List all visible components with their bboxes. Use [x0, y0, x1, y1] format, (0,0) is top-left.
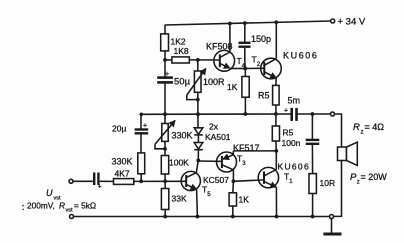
svg-text:KC507: KC507	[203, 175, 229, 185]
wire 4K7 to T5 base	[134, 180, 186, 182]
wire output terminal to speaker	[334, 114, 341, 147]
capacitor 100n	[306, 139, 320, 141]
svg-text:= 20W: = 20W	[361, 172, 388, 182]
wire node to 1K lower	[232, 181, 235, 193]
diode D2 KA501	[194, 143, 203, 150]
node T4 emitter / T2 base / 1K / 150p	[243, 67, 247, 71]
node bus 1K	[244, 112, 248, 116]
wire R5 bottom to bus	[275, 105, 277, 114]
node top rail T4 collector	[228, 22, 232, 26]
svg-text:+: +	[143, 122, 147, 129]
wire node down to 1K	[244, 69, 246, 77]
node input line 100K/33K	[163, 179, 167, 183]
transistor Q T3 KF517	[217, 152, 237, 172]
wire output bus right of 5m	[297, 113, 331, 115]
terminal input ground	[70, 215, 74, 219]
wire 1K8 to T4 base	[189, 59, 220, 61]
diode D1 KA501	[194, 128, 203, 135]
wire T4 emitter to T2 base node	[231, 68, 246, 70]
resistor R5 upper	[273, 85, 280, 105]
node ground 10R	[311, 215, 315, 219]
trimmer 100R	[194, 71, 201, 92]
svg-text:z: z	[357, 179, 360, 185]
node trimmer wiper tie	[163, 147, 167, 151]
wire T2 emitter to R5	[275, 78, 277, 85]
resistor R 330K fixed	[138, 153, 145, 174]
svg-text:1K2: 1K2	[171, 36, 186, 46]
svg-text:vst: vst	[66, 208, 74, 214]
wire 1K2 bottom to 50u top	[164, 51, 166, 77]
svg-text:R5: R5	[283, 127, 294, 137]
wire T5 collector up	[196, 160, 198, 172]
wire T2 base	[245, 67, 264, 69]
svg-text:+: +	[284, 108, 288, 115]
wire 33K top lead	[164, 181, 166, 188]
node bus R5	[274, 112, 278, 116]
wire 100n drop from bus	[311, 114, 313, 139]
resistor R 10R	[309, 174, 316, 194]
svg-text:200mV,: 200mV,	[27, 201, 55, 211]
trimmer 330K	[162, 124, 168, 142]
resistor R 4K7	[114, 179, 134, 185]
wire T1 collector up	[275, 151, 277, 170]
svg-text:R: R	[59, 201, 65, 211]
svg-text:z: z	[361, 129, 364, 135]
speaker LS	[338, 147, 347, 161]
node bus bias chain	[196, 112, 200, 116]
ground symbol	[331, 219, 333, 233]
svg-text:+ 34 V: + 34 V	[338, 17, 366, 28]
svg-text:4K7: 4K7	[115, 168, 130, 178]
svg-text:= 5kΩ: = 5kΩ	[74, 201, 96, 211]
wire T2 collector up	[275, 22, 277, 58]
wire 330K bottom to input line	[140, 174, 142, 182]
node ground 33K	[163, 215, 167, 219]
svg-text:KA501: KA501	[205, 132, 231, 142]
resistor R 1K lower	[229, 193, 236, 206]
node 100R wiper tie	[196, 98, 200, 102]
node top rail 150p	[243, 21, 247, 25]
svg-text:10R: 10R	[320, 178, 336, 188]
capacitor 150p	[239, 42, 251, 44]
wire 50u bottom to bus	[164, 84, 166, 115]
svg-text:1: 1	[289, 179, 293, 185]
wire diodes bottom to T5 collector node	[197, 150, 199, 161]
wire T5 emitter to ground	[196, 190, 199, 217]
wire R5 lower bottom to node	[275, 141, 277, 151]
svg-text:+: +	[165, 71, 169, 78]
resistor R 1K upper	[242, 77, 249, 98]
wire input to cap	[73, 180, 93, 182]
wire T4 collector up	[229, 24, 231, 53]
svg-text:2x: 2x	[209, 121, 219, 131]
resistor R 1K2	[161, 34, 169, 51]
node T4 base / 100R top	[196, 58, 200, 62]
wire 1K bottom to bus	[244, 97, 246, 114]
wire 1K lower to ground	[232, 206, 234, 217]
resistor R 1K8	[172, 57, 189, 63]
wire T3 emitter node to T1 collector	[233, 150, 276, 152]
svg-text:+: +	[98, 184, 102, 191]
wire between diodes	[197, 135, 199, 143]
svg-text:330K: 330K	[112, 156, 133, 166]
wire top supply rail	[165, 21, 331, 25]
terminal +34V	[331, 19, 335, 23]
transistor Q T2 KU606	[261, 58, 282, 79]
svg-text:1K: 1K	[227, 82, 238, 92]
transistor Q T5 KC507	[181, 171, 200, 190]
wire T1 emitter to ground	[275, 187, 277, 216]
wire 100R top lead	[197, 60, 199, 71]
wire R5 lower top lead	[275, 114, 277, 126]
node bus 100n	[311, 112, 315, 116]
wire output bus left of 5m	[141, 113, 292, 115]
wire 150p bottom to node	[244, 48, 246, 69]
svg-text:50µ: 50µ	[174, 76, 191, 87]
svg-text:= 4Ω: = 4Ω	[365, 122, 385, 132]
wire 20u drop from bus	[140, 114, 142, 129]
terminal ground right	[330, 215, 334, 219]
svg-text:100K: 100K	[169, 157, 189, 167]
wire T3 emitter up to node	[232, 151, 234, 155]
wire 1K8 left lead	[165, 59, 172, 61]
svg-text:KF517: KF517	[233, 143, 260, 153]
node 1K2/1K8/50u	[163, 58, 167, 62]
wire T1 base	[233, 180, 264, 181]
node T5 collector / T3 base	[196, 159, 200, 163]
svg-text:U: U	[46, 188, 53, 198]
wire T3 collector down	[232, 170, 234, 182]
terminal input top	[69, 179, 73, 183]
svg-text:33K: 33K	[172, 193, 187, 203]
node ground T1 emitter	[275, 215, 279, 219]
svg-text:1K8: 1K8	[174, 46, 189, 56]
node ground T5 emitter	[196, 215, 200, 219]
wire 20u bottom to 330K	[140, 135, 142, 153]
svg-text:100n: 100n	[282, 138, 301, 148]
wire trimmer bottom	[164, 141, 166, 155]
node bus 50u	[163, 112, 167, 116]
wire ground rail	[74, 216, 330, 218]
transistor Q T4 KF508	[214, 50, 235, 71]
svg-text:5m: 5m	[288, 96, 301, 106]
svg-text:5: 5	[207, 192, 211, 198]
wire 100R bottom to diodes through bus	[197, 92, 199, 127]
svg-text:KU606: KU606	[283, 51, 319, 61]
terminal output	[331, 112, 335, 116]
resistor R 100K	[161, 156, 168, 175]
wire speaker bottom to ground terminal	[333, 161, 341, 217]
capacitor 5m electrolytic	[290, 108, 293, 121]
wire 33K bottom to ground rail	[164, 210, 166, 217]
svg-text:R: R	[353, 122, 360, 133]
node R5 / T3 emitter / T1 collector	[274, 149, 278, 153]
capacitor input electrolytic	[93, 173, 95, 186]
node input line 330K	[139, 179, 143, 183]
svg-text:R5: R5	[258, 90, 270, 100]
wire rail corner down to R 1K2	[164, 25, 166, 34]
transistor Q T1 KU606	[258, 167, 278, 187]
node bus 20u corner	[140, 113, 144, 117]
svg-text:KU606: KU606	[278, 161, 311, 171]
svg-text:100R: 100R	[203, 77, 225, 87]
svg-text:KF508: KF508	[206, 41, 233, 51]
wire trimmer 330K top lead	[164, 114, 166, 123]
svg-text:330K: 330K	[172, 130, 193, 140]
wire cap to 4K7	[100, 180, 114, 182]
resistor R5 lower	[272, 126, 279, 141]
svg-text:150p: 150p	[251, 34, 271, 44]
resistor R 33K	[161, 189, 168, 210]
wire 10R to ground rail	[312, 194, 314, 217]
wire node to T3 base	[198, 160, 222, 162]
ink speck	[22, 205, 24, 211]
node ground 1K lower	[231, 215, 235, 219]
capacitor 50u electrolytic	[157, 76, 173, 79]
node top rail T2 collector	[274, 20, 278, 24]
capacitor 20u electrolytic	[135, 128, 149, 130]
wire 100n to 10R	[311, 145, 313, 174]
wire 150p top lead	[244, 23, 246, 42]
wire 100K bottom to input line	[164, 174, 166, 181]
node T3 collector / T1 base / 1K	[232, 179, 236, 183]
svg-text:1K: 1K	[239, 194, 250, 204]
svg-text:20µ: 20µ	[112, 123, 126, 133]
svg-text:3: 3	[242, 161, 246, 167]
